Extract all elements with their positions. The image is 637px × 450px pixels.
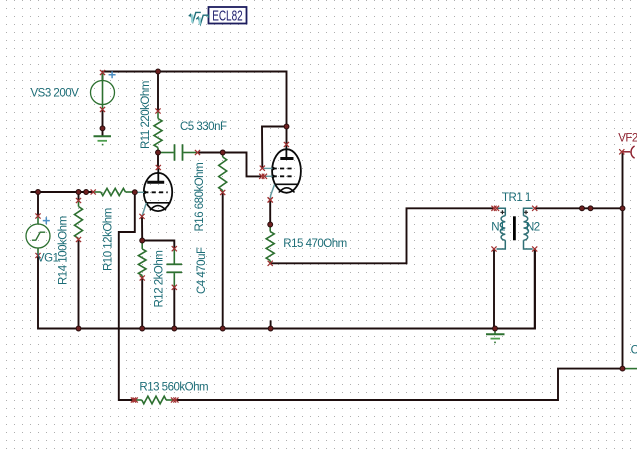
svg-text:VF2: VF2	[618, 133, 637, 145]
svg-text:R12 2kOhm: R12 2kOhm	[154, 251, 166, 308]
svg-text:VG1: VG1	[37, 253, 59, 265]
svg-text:R14 100kOhm: R14 100kOhm	[58, 216, 70, 285]
svg-text:R13 560kOhm: R13 560kOhm	[139, 382, 208, 394]
svg-text:C5 330nF: C5 330nF	[180, 121, 227, 133]
svg-text:R11 220kOhm: R11 220kOhm	[140, 81, 152, 149]
svg-text:N1: N1	[491, 222, 505, 234]
svg-text:R15 470Ohm: R15 470Ohm	[283, 238, 346, 250]
svg-text:C4 470uF: C4 470uF	[196, 247, 208, 294]
svg-text:ECL82: ECL82	[212, 8, 243, 25]
svg-text:N2: N2	[526, 222, 540, 234]
svg-text:TR1 1: TR1 1	[502, 192, 531, 204]
svg-text:C: C	[631, 345, 637, 357]
svg-text:R16 680kOhm: R16 680kOhm	[194, 163, 206, 232]
svg-text:VS3 200V: VS3 200V	[31, 88, 80, 100]
svg-text:R10 12kOhm: R10 12kOhm	[103, 208, 115, 271]
